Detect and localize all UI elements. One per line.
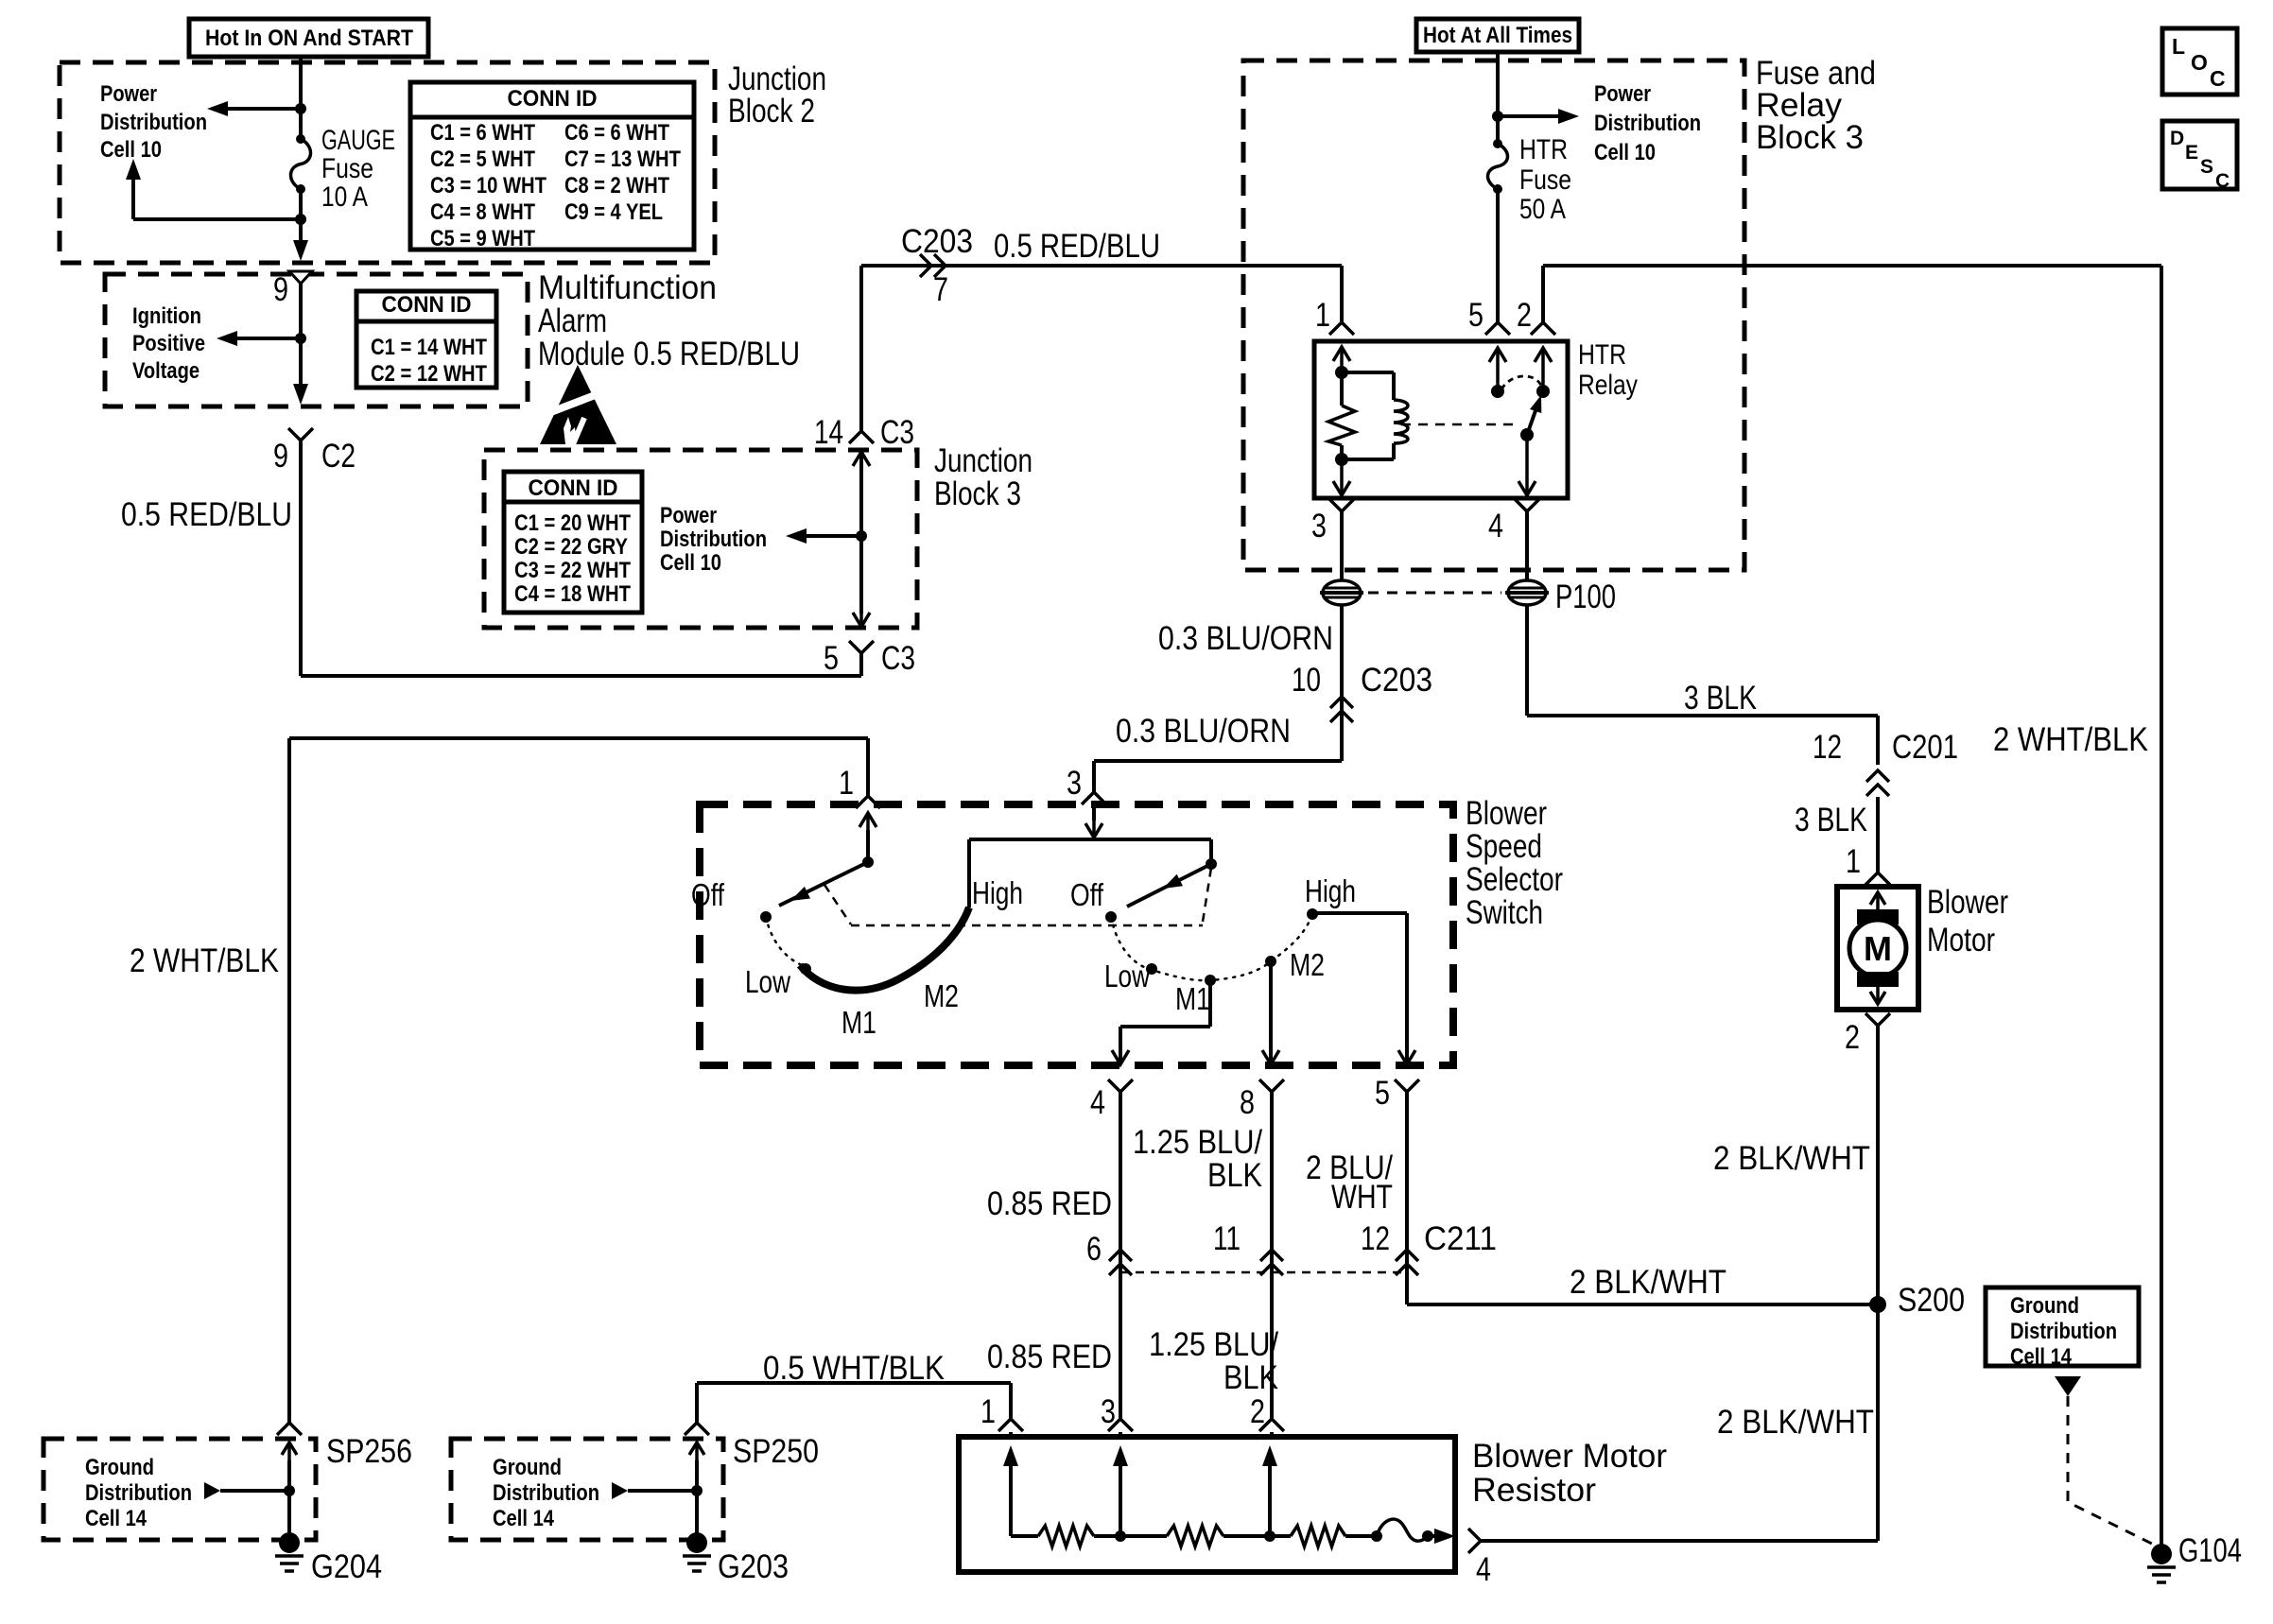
svg-text:C4 = 18 WHT: C4 = 18 WHT	[514, 581, 631, 607]
svg-text:C: C	[2210, 66, 2226, 91]
svg-text:High: High	[972, 875, 1023, 910]
svg-text:Off: Off	[1070, 877, 1104, 912]
svg-text:C211: C211	[1424, 1220, 1497, 1257]
svg-text:3 BLK: 3 BLK	[1684, 680, 1757, 717]
svg-text:P100: P100	[1555, 579, 1616, 615]
svg-text:2: 2	[1250, 1393, 1265, 1430]
svg-text:Blower Motor: Blower Motor	[1472, 1438, 1667, 1475]
svg-text:C2 = 5 WHT: C2 = 5 WHT	[430, 147, 535, 172]
svg-text:3 BLK: 3 BLK	[1795, 802, 1867, 838]
svg-text:G204: G204	[311, 1548, 382, 1585]
svg-text:Block 2: Block 2	[728, 93, 815, 130]
svg-text:G203: G203	[718, 1548, 789, 1585]
svg-text:C7 = 13 WHT: C7 = 13 WHT	[564, 147, 681, 172]
svg-text:Module: Module	[538, 336, 625, 372]
svg-text:C2: C2	[321, 438, 356, 475]
svg-text:Block 3: Block 3	[1756, 119, 1864, 156]
svg-text:1.25 BLU/: 1.25 BLU/	[1149, 1326, 1278, 1363]
svg-text:GAUGE: GAUGE	[321, 125, 395, 156]
svg-text:1: 1	[839, 765, 854, 802]
svg-text:Relay: Relay	[1578, 370, 1638, 401]
svg-text:1: 1	[980, 1393, 996, 1430]
svg-text:6: 6	[1086, 1231, 1102, 1268]
svg-text:Hot In ON And START: Hot In ON And START	[205, 26, 413, 51]
svg-text:C1 = 20 WHT: C1 = 20 WHT	[514, 510, 631, 536]
svg-text:Power: Power	[100, 81, 157, 107]
svg-text:0.5 RED/BLU: 0.5 RED/BLU	[633, 336, 800, 372]
svg-text:4: 4	[1488, 508, 1503, 544]
svg-text:2: 2	[1517, 297, 1532, 334]
svg-text:M2: M2	[1290, 947, 1325, 982]
svg-text:Cell 10: Cell 10	[660, 550, 721, 576]
svg-text:S: S	[2200, 156, 2213, 178]
svg-text:0.85 RED: 0.85 RED	[987, 1339, 1112, 1375]
svg-text:C3: C3	[880, 414, 914, 451]
svg-text:Off: Off	[691, 877, 725, 912]
svg-text:Cell 14: Cell 14	[493, 1506, 555, 1531]
svg-text:Ground: Ground	[493, 1455, 562, 1480]
svg-text:Distribution: Distribution	[100, 110, 207, 135]
svg-text:7: 7	[933, 271, 948, 308]
svg-text:4: 4	[1090, 1084, 1105, 1121]
svg-text:8: 8	[1240, 1084, 1255, 1121]
svg-text:HTR: HTR	[1578, 339, 1626, 371]
svg-text:Speed: Speed	[1466, 828, 1542, 865]
svg-text:Distribution: Distribution	[660, 527, 767, 552]
svg-text:SP256: SP256	[326, 1433, 412, 1470]
svg-text:C8 = 2 WHT: C8 = 2 WHT	[564, 173, 669, 199]
svg-text:C201: C201	[1892, 729, 1958, 766]
svg-text:L: L	[2172, 34, 2185, 59]
svg-text:11: 11	[1213, 1220, 1241, 1257]
svg-text:Blower: Blower	[1927, 884, 2008, 921]
svg-text:C2 = 22 GRY: C2 = 22 GRY	[514, 534, 628, 560]
svg-text:4: 4	[1476, 1551, 1491, 1588]
svg-text:C2 = 12 WHT: C2 = 12 WHT	[371, 361, 487, 387]
svg-text:Selector: Selector	[1466, 861, 1563, 898]
svg-text:C3: C3	[881, 640, 915, 677]
svg-text:10: 10	[1292, 662, 1321, 699]
svg-text:2 WHT/BLK: 2 WHT/BLK	[130, 942, 279, 979]
svg-text:12: 12	[1361, 1220, 1390, 1257]
svg-text:O: O	[2191, 50, 2208, 75]
svg-text:3: 3	[1067, 765, 1082, 802]
svg-text:5: 5	[1468, 297, 1484, 334]
svg-text:0.3 BLU/ORN: 0.3 BLU/ORN	[1116, 713, 1291, 750]
svg-text:SP250: SP250	[733, 1433, 819, 1470]
svg-text:Low: Low	[1104, 959, 1150, 993]
svg-text:5: 5	[1375, 1075, 1390, 1112]
svg-text:C5 = 9 WHT: C5 = 9 WHT	[430, 226, 535, 251]
svg-text:Cell 10: Cell 10	[100, 137, 162, 163]
svg-text:Alarm: Alarm	[538, 302, 607, 339]
svg-text:3: 3	[1311, 508, 1327, 544]
svg-text:Distribution: Distribution	[493, 1480, 599, 1506]
svg-text:Cell 14: Cell 14	[85, 1506, 147, 1531]
svg-text:M2: M2	[924, 978, 959, 1013]
svg-text:BLK: BLK	[1223, 1359, 1278, 1396]
svg-text:Low: Low	[745, 964, 790, 999]
svg-text:Block 3: Block 3	[934, 475, 1021, 512]
svg-text:C: C	[2215, 170, 2230, 192]
svg-text:Distribution: Distribution	[1594, 111, 1701, 136]
svg-text:Multifunction: Multifunction	[538, 269, 717, 306]
svg-text:0.3 BLU/ORN: 0.3 BLU/ORN	[1158, 620, 1333, 657]
svg-text:2 WHT/BLK: 2 WHT/BLK	[1993, 721, 2148, 758]
svg-text:C1 = 6 WHT: C1 = 6 WHT	[430, 120, 535, 146]
svg-text:M: M	[1864, 929, 1892, 968]
svg-text:1.25 BLU/: 1.25 BLU/	[1133, 1124, 1262, 1161]
svg-text:Distribution: Distribution	[85, 1480, 192, 1506]
svg-text:Resistor: Resistor	[1472, 1472, 1596, 1509]
svg-text:Motor: Motor	[1927, 922, 1995, 959]
svg-text:High: High	[1305, 873, 1356, 908]
svg-text:3: 3	[1101, 1393, 1116, 1430]
svg-text:C203: C203	[1361, 662, 1432, 699]
svg-text:12: 12	[1813, 729, 1842, 766]
svg-text:Junction: Junction	[934, 442, 1032, 479]
svg-text:Power: Power	[660, 503, 717, 528]
svg-text:Cell 14: Cell 14	[2010, 1344, 2073, 1370]
svg-text:E: E	[2185, 142, 2198, 164]
svg-text:G104: G104	[2178, 1532, 2242, 1569]
svg-text:2 BLK/WHT: 2 BLK/WHT	[1713, 1140, 1870, 1177]
svg-text:1: 1	[1315, 297, 1330, 334]
svg-text:0.85 RED: 0.85 RED	[987, 1185, 1112, 1222]
svg-text:C203: C203	[901, 223, 973, 260]
svg-text:Positive: Positive	[132, 331, 205, 356]
svg-text:0.5 RED/BLU: 0.5 RED/BLU	[994, 228, 1160, 265]
svg-text:Blower: Blower	[1466, 795, 1547, 832]
svg-text:2: 2	[1845, 1019, 1860, 1056]
svg-text:2 BLK/WHT: 2 BLK/WHT	[1717, 1404, 1874, 1441]
svg-text:C4 = 8 WHT: C4 = 8 WHT	[430, 199, 535, 225]
svg-text:M1: M1	[842, 1005, 876, 1040]
svg-text:M1: M1	[1175, 981, 1210, 1016]
svg-text:1: 1	[1846, 843, 1861, 880]
svg-text:C9 = 4 YEL: C9 = 4 YEL	[564, 199, 663, 225]
svg-text:S200: S200	[1898, 1282, 1965, 1319]
svg-text:Voltage: Voltage	[132, 358, 200, 384]
svg-text:Hot At All Times: Hot At All Times	[1423, 23, 1572, 48]
svg-text:C3 = 22 WHT: C3 = 22 WHT	[514, 558, 631, 583]
svg-text:BLK: BLK	[1207, 1157, 1262, 1194]
svg-text:9: 9	[273, 271, 288, 308]
svg-text:Fuse: Fuse	[321, 153, 373, 184]
svg-text:10 A: 10 A	[321, 181, 368, 213]
svg-text:Ground: Ground	[85, 1455, 154, 1480]
svg-text:0.5 WHT/BLK: 0.5 WHT/BLK	[763, 1350, 945, 1387]
svg-text:Distribution: Distribution	[2010, 1319, 2117, 1344]
svg-text:14: 14	[814, 414, 843, 451]
svg-text:D: D	[2170, 128, 2184, 149]
svg-text:C1 = 14 WHT: C1 = 14 WHT	[371, 335, 487, 360]
svg-text:Power: Power	[1594, 81, 1651, 107]
svg-text:C6 = 6 WHT: C6 = 6 WHT	[564, 120, 669, 146]
svg-text:Fuse: Fuse	[1519, 164, 1571, 196]
svg-text:0.5 RED/BLU: 0.5 RED/BLU	[121, 496, 292, 533]
svg-text:Ignition: Ignition	[132, 303, 201, 329]
svg-text:WHT: WHT	[1331, 1179, 1393, 1216]
svg-text:CONN ID: CONN ID	[529, 475, 618, 501]
svg-text:Ground: Ground	[2010, 1293, 2079, 1319]
svg-text:CONN ID: CONN ID	[382, 292, 472, 318]
svg-text:5: 5	[824, 640, 839, 677]
svg-text:HTR: HTR	[1519, 134, 1568, 165]
svg-text:Switch: Switch	[1466, 894, 1543, 931]
svg-text:2 BLK/WHT: 2 BLK/WHT	[1570, 1264, 1726, 1301]
svg-text:CONN ID: CONN ID	[508, 86, 598, 112]
svg-text:Cell 10: Cell 10	[1594, 140, 1656, 165]
svg-text:C3 = 10 WHT: C3 = 10 WHT	[430, 173, 547, 199]
svg-text:50 A: 50 A	[1519, 194, 1566, 225]
svg-text:9: 9	[273, 438, 288, 475]
